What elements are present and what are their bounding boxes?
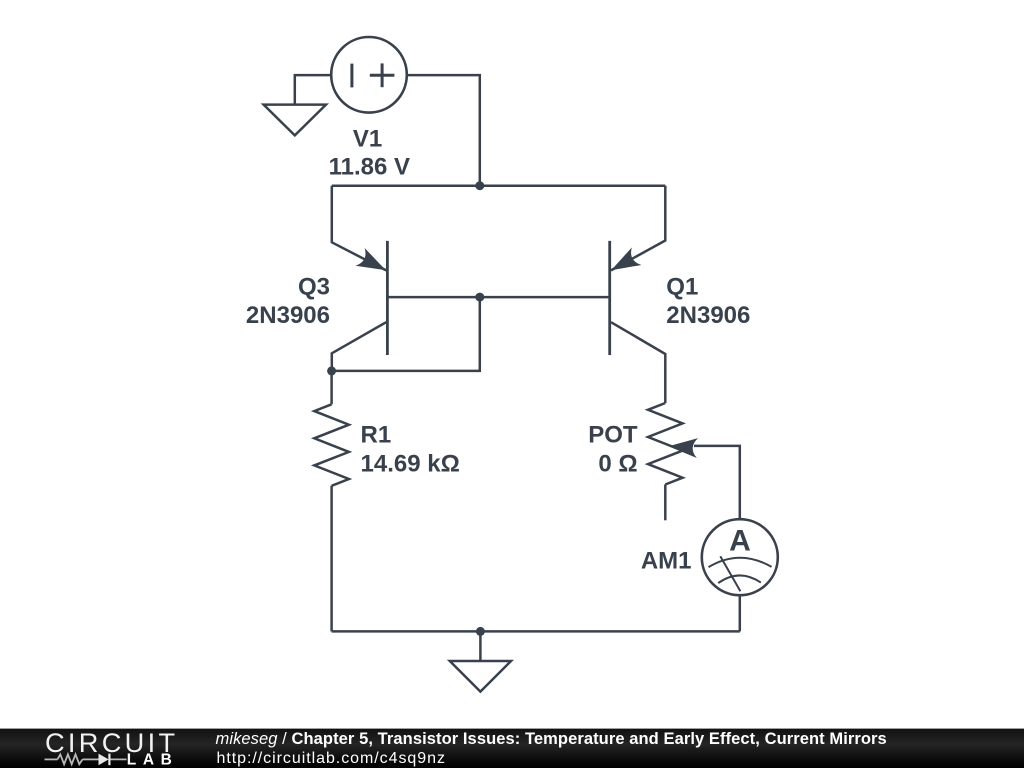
wire base bus Q3 to Q1 — [387, 296, 609, 299]
transistor Q3 — [332, 186, 391, 371]
wire base-collector tie — [332, 297, 480, 371]
node R1 top junction — [327, 366, 336, 375]
svg-text:11.86 V: 11.86 V — [329, 154, 410, 181]
node ground junction — [476, 627, 485, 636]
svg-text:Q1: Q1 — [666, 273, 698, 300]
wire ammeter to bottom rail — [739, 595, 742, 631]
wire top rail — [332, 184, 666, 187]
potentiometer POT — [648, 403, 683, 520]
ground (top left, V1 negative) — [264, 75, 332, 135]
logo diode — [99, 754, 111, 766]
svg-text:http://circuitlab.com/c4sq9nz: http://circuitlab.com/c4sq9nz — [217, 750, 446, 767]
svg-text:14.69 kΩ: 14.69 kΩ — [361, 450, 460, 477]
ammeter AM1 — [702, 519, 778, 595]
voltage source V1 — [331, 37, 407, 113]
svg-text:V1: V1 — [353, 126, 382, 153]
svg-text:0 Ω: 0 Ω — [598, 451, 637, 478]
logo resistor-diode wire — [45, 754, 127, 764]
footer bar — [0, 729, 1024, 768]
svg-text:AM1: AM1 — [641, 548, 692, 575]
transistor Q1 — [606, 186, 665, 403]
wire V1 positive to top rail — [407, 75, 480, 186]
resistor R1 — [314, 371, 349, 632]
svg-text:2N3906: 2N3906 — [666, 302, 750, 329]
svg-text:2N3906: 2N3906 — [246, 302, 330, 329]
svg-text:POT: POT — [588, 421, 638, 448]
svg-text:R1: R1 — [361, 421, 392, 448]
svg-text:LAB: LAB — [127, 751, 179, 768]
ground (bottom) — [450, 631, 511, 691]
svg-text:Q3: Q3 — [298, 273, 330, 300]
svg-text:A: A — [729, 525, 751, 558]
svg-text:mikeseg / Chapter 5, Transisto: mikeseg / Chapter 5, Transistor Issues: … — [216, 730, 887, 748]
node top rail junction — [475, 181, 484, 190]
wire bottom rail — [332, 630, 740, 633]
POT wiper arrow and wire — [668, 436, 740, 519]
V1 plus mark — [370, 63, 395, 87]
V1 minus mark — [350, 64, 353, 88]
node base junction — [475, 293, 484, 302]
